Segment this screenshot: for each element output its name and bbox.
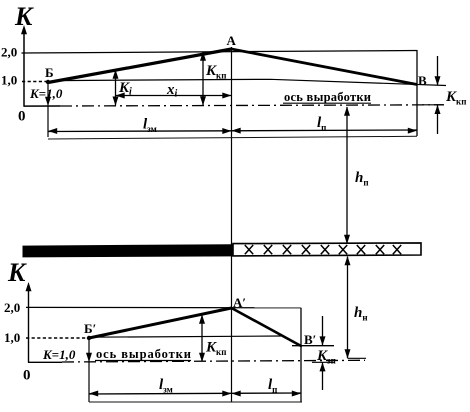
K=1 level thin line from Б' (bottom) <box>89 336 281 337</box>
svg-text:2,0: 2,0 <box>4 300 20 315</box>
svg-text:В: В <box>418 73 427 88</box>
solid coal seam bar (left, black) <box>23 244 234 257</box>
x axis solid segment (bottom) <box>28 361 62 363</box>
K axis arrowhead (bottom) <box>26 282 32 291</box>
svg-text:В′: В′ <box>304 332 316 347</box>
X hatching marks <box>245 245 401 254</box>
extension line below Б' <box>88 338 90 402</box>
dimension line l_п (bottom) <box>232 392 302 394</box>
dash-dot axis line ось выработки (top) <box>60 105 444 106</box>
corner tick at bottom of h_н <box>348 357 367 359</box>
point Б marker <box>46 80 50 84</box>
K=1 level thin line Б to K_кп tick (top) <box>54 79 446 85</box>
right edge extension line (top rect) <box>416 50 418 136</box>
x axis solid segment (top) <box>24 105 61 107</box>
svg-text:0: 0 <box>23 368 31 384</box>
underline of ось выработки (bottom) <box>95 360 191 362</box>
B' level line <box>292 345 334 347</box>
K axis vertical line (top) <box>23 29 25 107</box>
dimension line l_зм (bottom) <box>89 392 232 395</box>
mined-out seam bar (right, hatched) <box>233 243 421 256</box>
extension line below Б down to dimension line <box>47 82 49 137</box>
right edge extension line (bottom rect) <box>300 308 302 402</box>
svg-text:ось выработки: ось выработки <box>284 90 371 104</box>
centre vertical line through А <box>231 47 233 402</box>
tick at axis level (bottom right) <box>312 361 334 363</box>
level line K=2 (top) <box>22 51 418 54</box>
svg-text:ось выработки: ось выработки <box>96 347 191 361</box>
faint bottom border line of bottom box <box>89 401 302 403</box>
svg-text:А: А <box>227 33 237 48</box>
K curve branch А'-B' (thick) <box>232 308 303 347</box>
point Б' marker <box>87 336 91 340</box>
K_кп double arrow (top centre) <box>202 53 204 106</box>
dashed line at K=1 to point Б <box>22 81 48 83</box>
svg-text:0: 0 <box>18 109 26 125</box>
K_i double arrow <box>115 71 117 106</box>
svg-text:K=1,0: K=1,0 <box>42 347 76 362</box>
svg-text:2,0: 2,0 <box>1 45 17 60</box>
tick at axis level right <box>422 104 443 106</box>
svg-text:1,0: 1,0 <box>1 73 17 88</box>
level line K=2 (bottom) <box>26 306 301 308</box>
dashed line at K=1 to point Б' <box>26 337 89 339</box>
h_н dimension double arrow <box>347 257 349 359</box>
K curve branch Б-А (thick) <box>48 49 232 83</box>
arrowhead down at axis under Б <box>45 97 51 106</box>
svg-text:K: K <box>7 258 27 287</box>
K_кп double arrow (bottom centre) <box>201 315 203 362</box>
K_кп right dimension upper arrow <box>437 56 439 86</box>
faint bottom border line of top box <box>48 136 417 139</box>
dimension line l_зм (top) <box>48 130 232 133</box>
x_i dimension line <box>116 95 232 97</box>
svg-text:А′: А′ <box>233 295 246 310</box>
K axis arrowhead <box>21 25 27 34</box>
dash-dot axis line (bottom) <box>62 360 365 362</box>
underline of ось выработки (top) <box>283 102 371 104</box>
K curve branch А-B (thick) <box>232 49 418 85</box>
K curve branch Б'-А' (thick) <box>89 308 232 338</box>
dimension line l_п (top) <box>232 129 418 132</box>
K_кп right dimension lower arrow (bottom) <box>322 362 324 390</box>
K_кп right dimension lower arrow <box>437 105 439 134</box>
K_кп right dimension upper arrow (bottom) <box>322 316 324 346</box>
K axis vertical line (bottom) <box>28 286 30 363</box>
arrowhead down at axis under Б' <box>86 353 92 362</box>
svg-text:Б′: Б′ <box>84 321 96 336</box>
svg-text:1,0: 1,0 <box>4 330 20 345</box>
svg-text:Б: Б <box>45 65 54 80</box>
h_п dimension double arrow <box>346 107 348 244</box>
